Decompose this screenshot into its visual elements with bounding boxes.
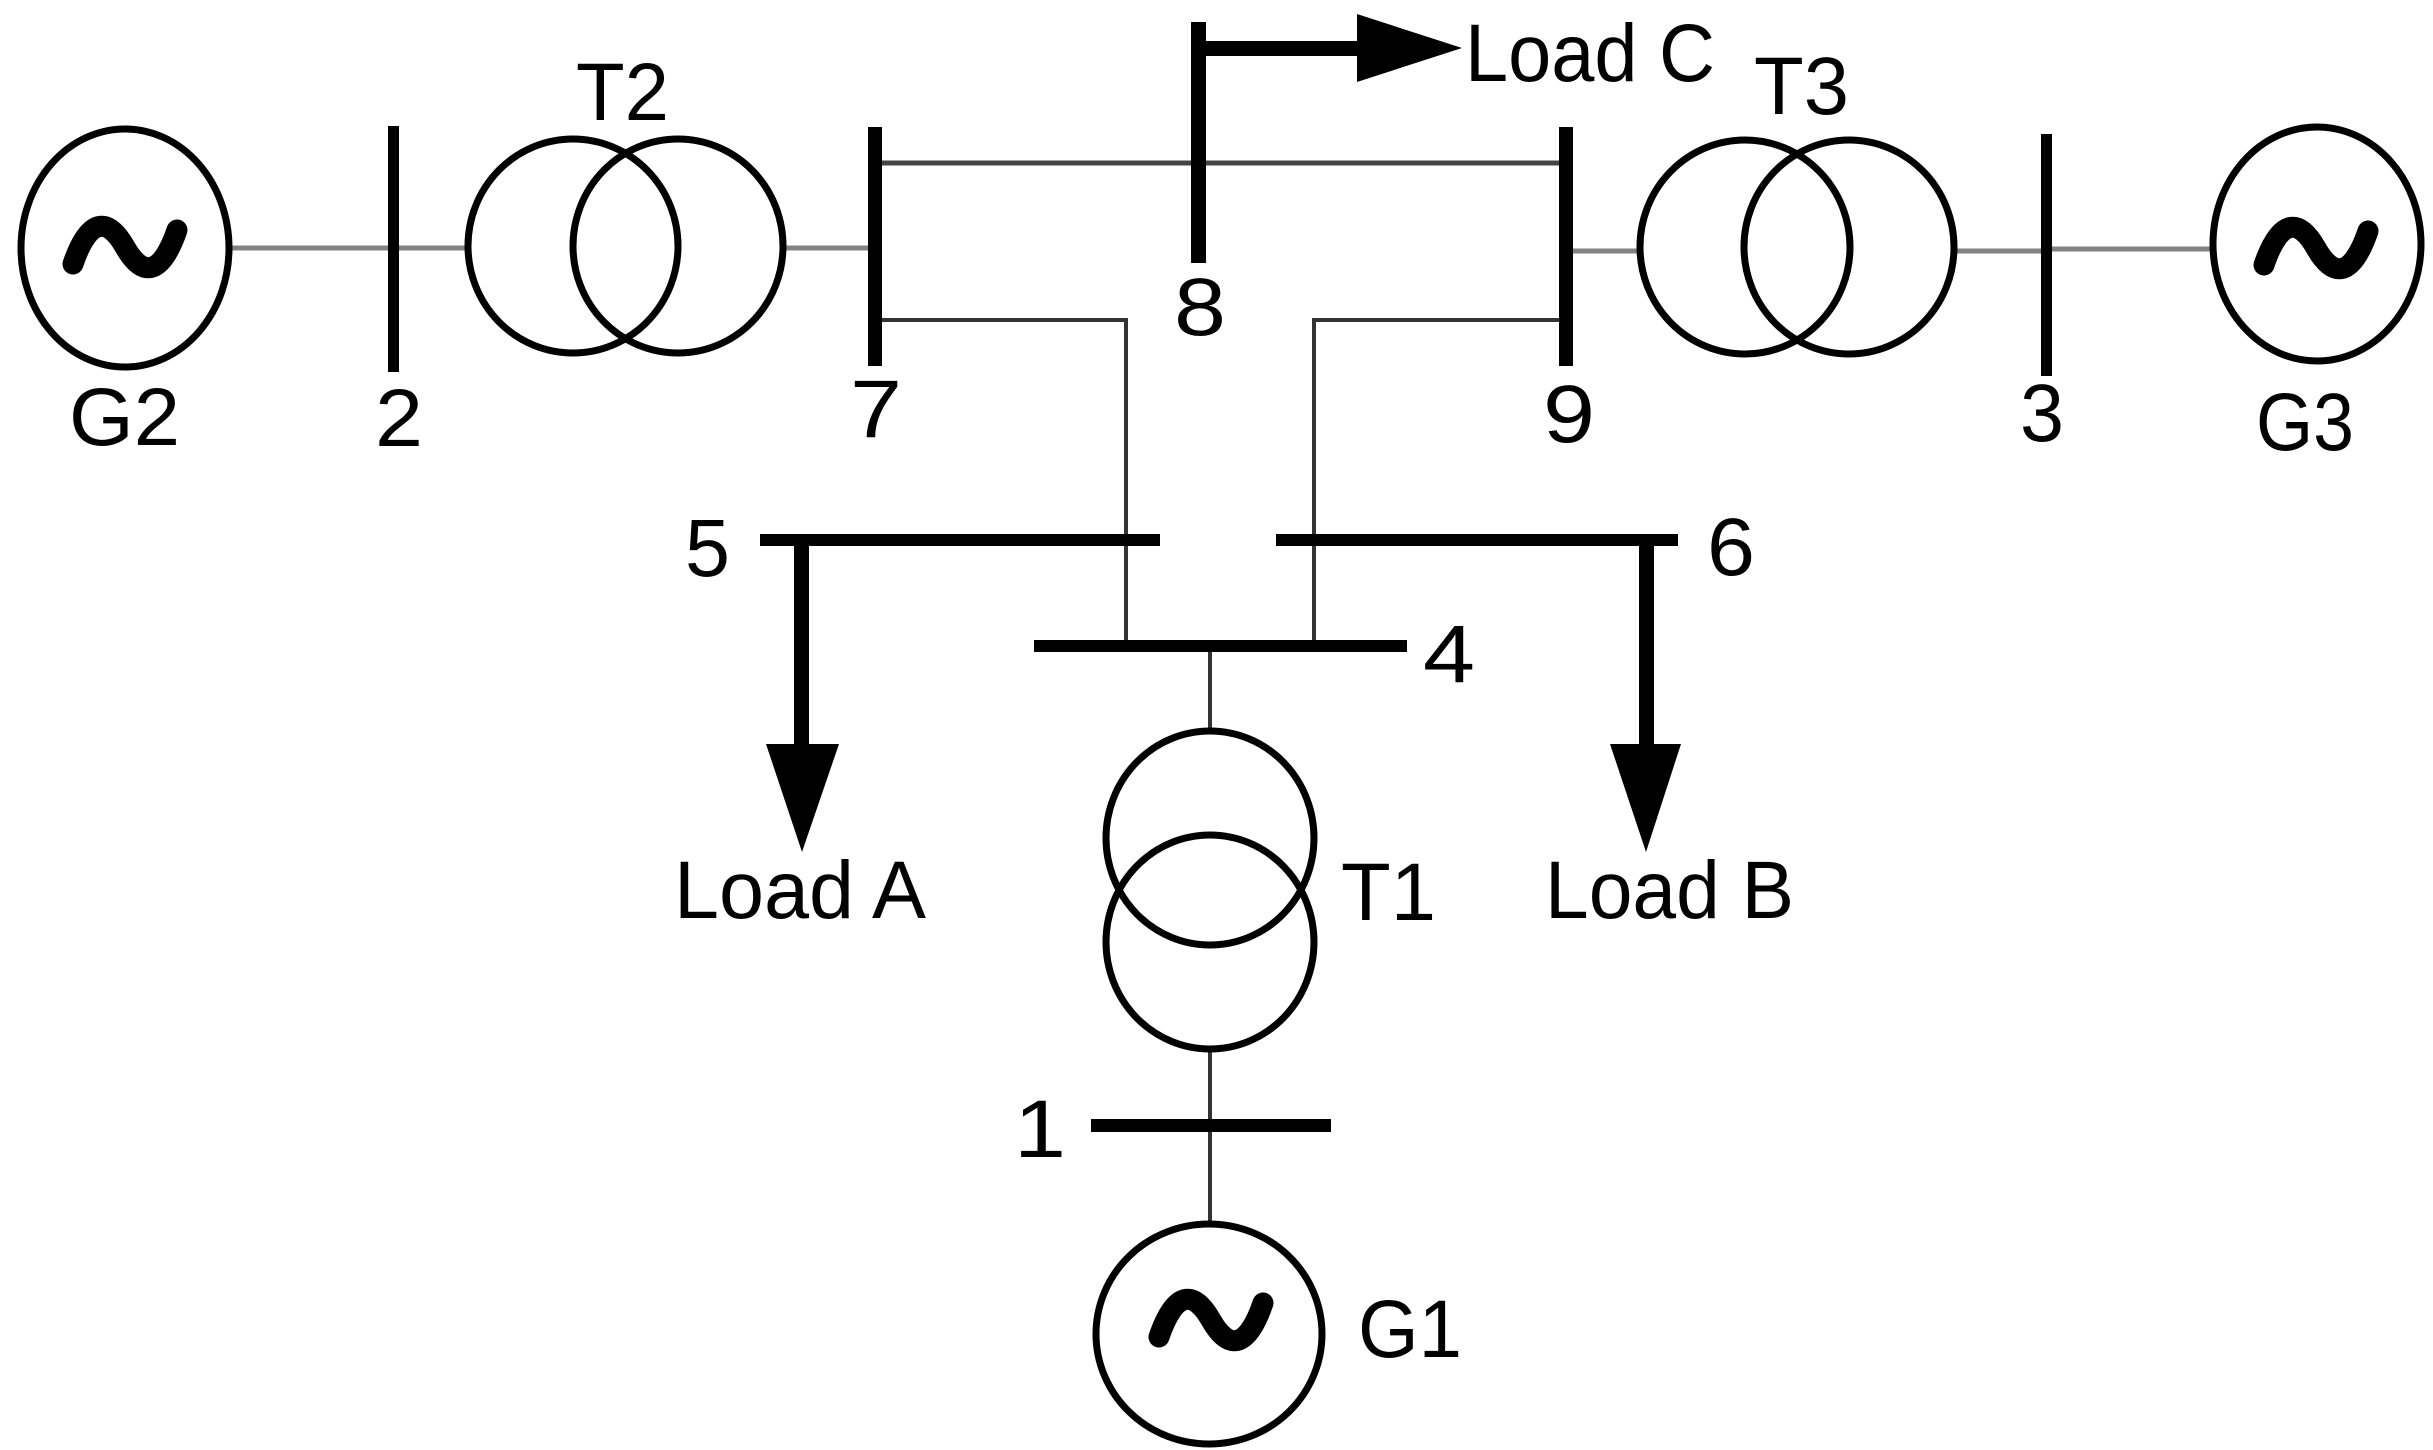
bus 3 [2041,134,2052,376]
svg-text:Load B: Load B [1545,845,1794,936]
wire bus 9 to T3 [1572,249,1638,254]
wire bus 9 to bus 4 (line 9-6-4) [1314,320,1560,640]
svg-text:Load A: Load A [674,845,926,936]
svg-text:7: 7 [850,364,902,455]
svg-text:2: 2 [375,373,423,464]
generator G3 [2213,127,2421,361]
svg-text:1: 1 [1014,1084,1066,1175]
wire bus 7 to bus 9 (line 7-8-9) [880,161,1560,166]
wire T2 to bus 7 [785,246,869,251]
svg-text:6: 6 [1707,502,1755,593]
load A arrow [766,546,839,852]
svg-text:G3: G3 [2256,377,2354,468]
transformer T3 [1640,140,1954,354]
svg-text:T2: T2 [576,47,669,138]
svg-text:G2: G2 [69,372,180,463]
generator G2 [21,129,229,367]
wire G2 to T2 through bus 2 [230,246,466,251]
bus 1 [1091,1119,1331,1132]
load C arrow [1200,14,1462,82]
bus 8 [1191,22,1206,263]
svg-text:Load C: Load C [1465,8,1715,99]
bus 4 [1034,640,1407,652]
svg-text:T1: T1 [1341,847,1436,938]
transformer T1 [1106,731,1314,1049]
generator G1 [1096,1224,1322,1444]
bus 9 [1559,127,1573,366]
bus 6 [1276,534,1678,546]
load B arrow [1610,546,1681,852]
wire bus 3 to G3 [2051,247,2212,252]
bus 5 [760,534,1160,546]
wire bus 4 to T1 [1208,650,1212,732]
bus 7 [868,127,882,366]
transformer T2 [468,139,783,353]
svg-text:T3: T3 [1754,41,1849,132]
svg-text:5: 5 [685,503,730,594]
svg-text:9: 9 [1543,369,1595,460]
svg-text:G1: G1 [1358,1284,1462,1375]
wire T3 to bus 3 [1956,249,2042,254]
wire T1 to bus 1 [1208,1049,1212,1120]
svg-text:8: 8 [1174,262,1226,353]
bus 2 [388,126,399,372]
wire bus 1 to G1 [1208,1131,1212,1222]
svg-text:4: 4 [1423,609,1475,700]
svg-text:3: 3 [2020,368,2064,459]
wire bus 7 to bus 4 (line 7-5-4) [881,320,1126,640]
